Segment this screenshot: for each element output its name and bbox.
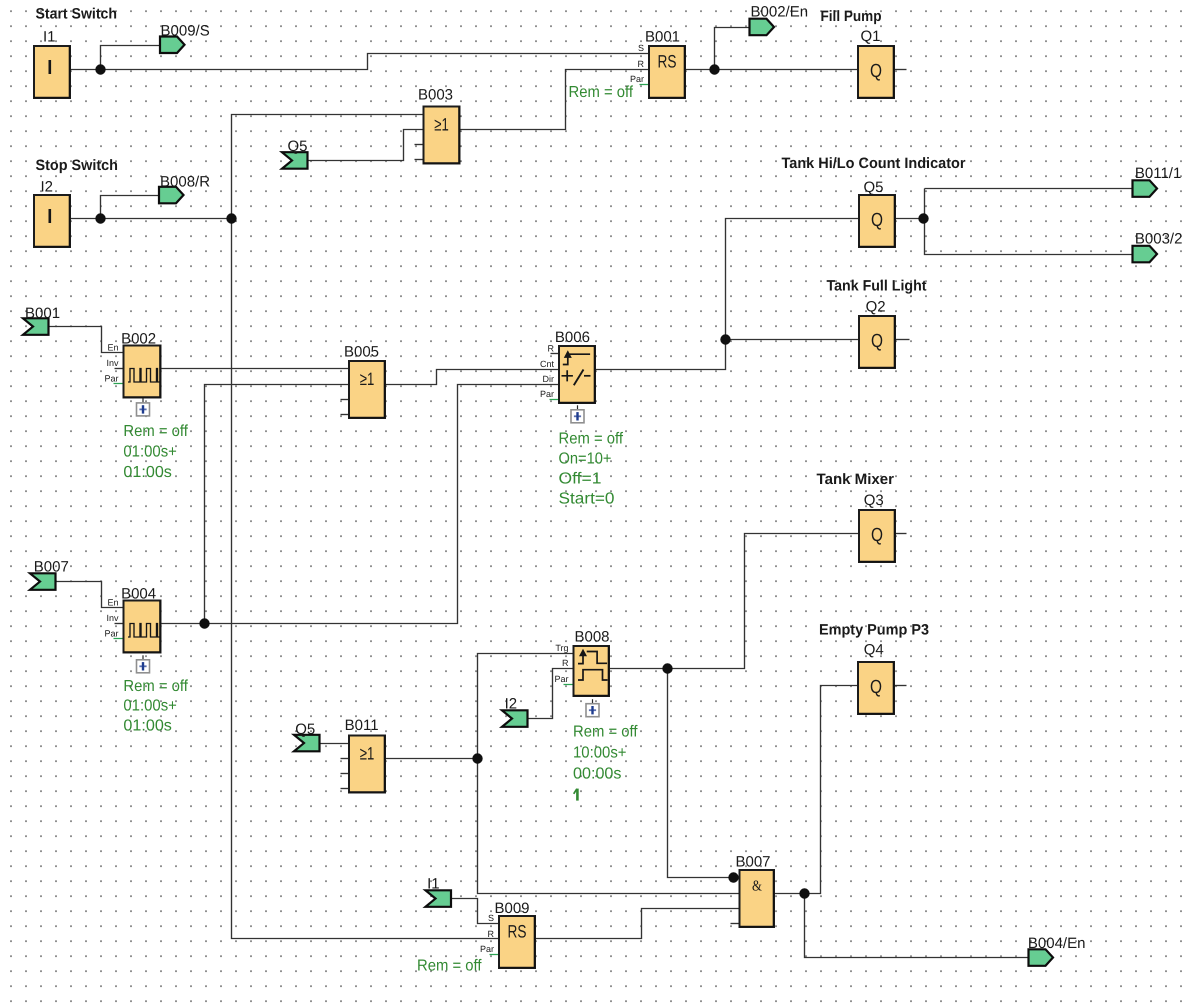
- svg-text:B006: B006: [555, 329, 590, 346]
- svg-text:Q: Q: [870, 61, 882, 82]
- svg-text:Par: Par: [554, 674, 568, 684]
- svg-text:Tank Full Light: Tank Full Light: [827, 278, 927, 295]
- svg-text:Inv: Inv: [106, 358, 119, 368]
- svg-text:Par: Par: [104, 629, 118, 639]
- svg-text:I1: I1: [43, 29, 56, 46]
- svg-text:R: R: [488, 929, 495, 939]
- svg-text:B005: B005: [344, 344, 379, 361]
- svg-text:≥1: ≥1: [434, 115, 449, 135]
- svg-text:Q: Q: [870, 677, 882, 698]
- svg-text:S: S: [638, 43, 644, 53]
- svg-text:Q5: Q5: [295, 721, 315, 738]
- svg-text:≥1: ≥1: [360, 744, 375, 764]
- svg-text:Dir: Dir: [543, 374, 555, 384]
- svg-text:Q2: Q2: [866, 299, 886, 316]
- svg-text:01:00s+: 01:00s+: [123, 698, 176, 715]
- svg-text:Start Switch: Start Switch: [36, 6, 118, 23]
- svg-text:Empty Pump P3: Empty Pump P3: [819, 622, 929, 639]
- svg-text:En: En: [107, 598, 118, 608]
- svg-text:B001: B001: [25, 305, 60, 322]
- svg-text:Start=0: Start=0: [559, 491, 615, 508]
- svg-text:Rem = off: Rem = off: [559, 431, 624, 448]
- svg-text:00:00s: 00:00s: [573, 766, 622, 783]
- svg-text:Par: Par: [104, 374, 118, 384]
- svg-text:Rem = off: Rem = off: [123, 423, 188, 440]
- svg-text:RS: RS: [658, 52, 677, 72]
- svg-text:Tank Hi/Lo Count Indicator: Tank Hi/Lo Count Indicator: [782, 155, 966, 172]
- svg-text:Off=1: Off=1: [559, 471, 602, 488]
- svg-text:Inv: Inv: [106, 613, 119, 623]
- svg-text:B003/2: B003/2: [1135, 231, 1183, 248]
- svg-text:B011/1: B011/1: [1135, 165, 1181, 182]
- svg-text:RS: RS: [508, 922, 527, 942]
- svg-text:Tank Mixer: Tank Mixer: [817, 471, 895, 488]
- svg-text:Par: Par: [540, 389, 554, 399]
- svg-text:B009: B009: [494, 900, 529, 917]
- svg-text:Par: Par: [630, 74, 644, 84]
- svg-text:B002: B002: [121, 331, 156, 348]
- svg-text:01:00s: 01:00s: [123, 464, 171, 481]
- svg-text:B007: B007: [34, 559, 69, 576]
- svg-text:B011: B011: [345, 717, 379, 734]
- svg-text:S: S: [488, 913, 494, 923]
- svg-text:Q3: Q3: [864, 492, 884, 509]
- svg-text:Rem = off: Rem = off: [123, 678, 188, 695]
- svg-text:Q: Q: [871, 525, 883, 546]
- svg-text:Q5: Q5: [288, 138, 308, 155]
- svg-text:Rem = off: Rem = off: [417, 958, 482, 975]
- svg-text:Q4: Q4: [864, 642, 884, 659]
- svg-text:01:00s+: 01:00s+: [123, 443, 176, 460]
- svg-text:En: En: [107, 343, 118, 353]
- svg-text:Fill Pump: Fill Pump: [821, 8, 882, 25]
- svg-text:Q1: Q1: [860, 28, 880, 45]
- svg-text:&: &: [752, 879, 762, 895]
- svg-text:Cnt: Cnt: [540, 359, 555, 369]
- svg-text:I2: I2: [41, 179, 54, 196]
- svg-text:Rem = off: Rem = off: [569, 84, 634, 101]
- svg-text:01:00s: 01:00s: [123, 717, 171, 734]
- svg-text:B004/En: B004/En: [1028, 935, 1086, 952]
- svg-text:On=10+: On=10+: [559, 451, 612, 468]
- svg-text:R: R: [562, 658, 569, 668]
- svg-text:Rem = off: Rem = off: [573, 724, 638, 741]
- svg-text:Par: Par: [480, 944, 494, 954]
- svg-text:R: R: [638, 59, 645, 69]
- svg-text:Stop Switch: Stop Switch: [36, 157, 119, 174]
- svg-text:B001: B001: [645, 29, 680, 46]
- svg-text:B007: B007: [735, 854, 770, 871]
- svg-text:B002/En: B002/En: [751, 4, 809, 21]
- svg-text:B003: B003: [418, 87, 453, 104]
- svg-text:Q: Q: [871, 331, 883, 352]
- svg-text:≥1: ≥1: [360, 369, 375, 389]
- svg-text:I1: I1: [427, 876, 440, 893]
- svg-text:10:00s+: 10:00s+: [573, 745, 627, 762]
- svg-text:Q: Q: [871, 210, 883, 231]
- svg-text:B009/S: B009/S: [161, 23, 210, 40]
- svg-text:R: R: [548, 344, 555, 354]
- svg-text:Q5: Q5: [863, 179, 883, 196]
- svg-text:B008: B008: [574, 629, 609, 646]
- svg-text:I2: I2: [505, 696, 518, 713]
- svg-text:B008/R: B008/R: [160, 174, 210, 191]
- svg-text:Trg: Trg: [555, 643, 568, 653]
- svg-text:B004: B004: [121, 586, 156, 603]
